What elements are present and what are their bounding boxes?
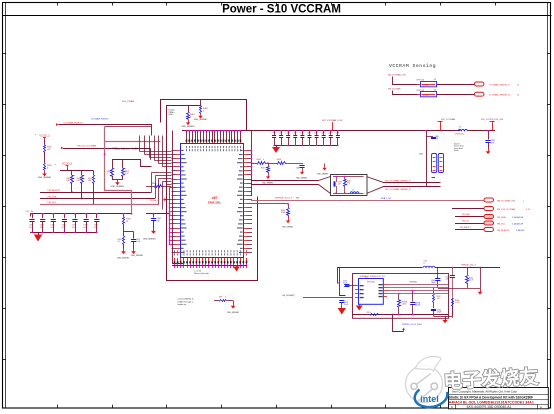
svg-text:GND_SENSE1: GND_SENSE1 bbox=[194, 119, 208, 121]
resistor R567 249 bbox=[433, 288, 441, 308]
ground below R464 bbox=[282, 216, 293, 229]
svg-text:C562: C562 bbox=[431, 280, 435, 282]
ground below R463 bbox=[194, 113, 208, 121]
net flag VDDA_3 at left pin bbox=[150, 199, 172, 203]
staircase wires into U67 left pins upper bbox=[140, 136, 172, 167]
bulk capacitor C485 47uF bbox=[485, 130, 495, 144]
ground below U71 bbox=[356, 305, 363, 311]
resistor R466 sense N bbox=[416, 89, 436, 97]
svg-text:GND_SENSE1: GND_SENSE1 bbox=[143, 239, 156, 241]
series resistor R456 sense bbox=[265, 159, 302, 164]
series resistor R455 sense bbox=[251, 159, 266, 164]
net label SW_VCCRAM_SENSE_N bbox=[385, 188, 411, 191]
svg-text:C473: C473 bbox=[279, 132, 283, 134]
svg-text:L7: L7 bbox=[424, 263, 426, 265]
capacitor C564 470pF bbox=[431, 306, 453, 317]
svg-text:C474: C474 bbox=[286, 132, 290, 134]
svg-text:single via: single via bbox=[178, 304, 188, 306]
watermark elecfans mascot bbox=[406, 357, 443, 403]
svg-text:bal 60x4: bal 60x4 bbox=[423, 85, 429, 87]
svg-text:C489: C489 bbox=[338, 182, 342, 184]
bottom pin bus wire of U67 bbox=[172, 266, 247, 267]
wire RSENSE_VOUT_S long net bbox=[251, 200, 484, 202]
U67 bottom pin stubs bbox=[174, 258, 248, 268]
connector oval PM_ALERT3 bbox=[484, 228, 525, 232]
note connect AGND to DGND bbox=[178, 298, 195, 307]
staircase wires into U67 left pins mid bbox=[152, 173, 172, 212]
resistor R565 60.4K bbox=[438, 276, 480, 289]
ground below address resistors bbox=[111, 180, 125, 188]
wire joining address resistors bbox=[112, 176, 123, 180]
net label CN input left of PWRMGT bbox=[282, 294, 330, 298]
note PMBus Address = 0x58 bbox=[113, 148, 139, 151]
svg-text:C479: C479 bbox=[321, 132, 325, 134]
svg-text:PWRGD_S10_2: PWRGD_S10_2 bbox=[461, 265, 476, 267]
net label SW_VCCRAM sensing bbox=[388, 87, 401, 90]
resistor R464 604K to ground bbox=[281, 209, 290, 216]
svg-text:PM_ALERT3: PM_ALERT3 bbox=[48, 189, 62, 192]
svg-text:connect AGND to: connect AGND to bbox=[178, 298, 195, 301]
svg-text:0.1uF: 0.1uF bbox=[343, 283, 347, 285]
ground below R462 bbox=[181, 120, 195, 128]
net label VCCRAM_PWRGD blue bbox=[91, 117, 109, 120]
svg-text:SW_VCCRAM_LOW: SW_VCCRAM_LOW bbox=[322, 119, 343, 122]
ground of compensation network bbox=[442, 316, 447, 323]
svg-text:PM_SCL: PM_SCL bbox=[497, 223, 506, 225]
resistor R452 0 bbox=[44, 164, 53, 171]
svg-text:Stratix 10 GX FPGA & Developme: Stratix 10 GX FPGA & Development Kit wit… bbox=[449, 396, 533, 400]
sense pair wires from filter to labels bbox=[367, 177, 441, 194]
U71 left pins bbox=[355, 285, 364, 298]
svg-text:L9: L9 bbox=[459, 127, 461, 129]
svg-text:A: A bbox=[540, 405, 542, 409]
svg-text:0: 0 bbox=[107, 173, 108, 175]
resistor R507 pull-up ALERT bbox=[88, 176, 95, 184]
svg-text:VCCRAM Sensing: VCCRAM Sensing bbox=[389, 63, 436, 69]
svg-text:GND_SENSE1: GND_SENSE1 bbox=[296, 178, 307, 180]
wire PM_ALERT3 bbox=[40, 192, 151, 194]
svg-text:C564: C564 bbox=[437, 310, 441, 312]
resistor R457 sense P bbox=[416, 79, 436, 87]
svg-text:GND_SENSE1: GND_SENSE1 bbox=[38, 177, 52, 179]
magenta wire from U67 VS pin bbox=[251, 203, 289, 208]
U71 output wires bbox=[387, 281, 448, 293]
svg-text:6XX-44407R-15D-0S0040-A1: 6XX-44407R-15D-0S0040-A1 bbox=[467, 405, 512, 409]
wire outer loop around U67 bbox=[161, 100, 258, 281]
resistor R451 10K bbox=[44, 145, 53, 153]
wire VCC rail of cap bank bbox=[26, 211, 132, 217]
svg-text:PM_SDA: PM_SDA bbox=[497, 216, 506, 219]
svg-text:1uF: 1uF bbox=[338, 184, 341, 186]
svg-text:R461: R461 bbox=[261, 168, 265, 170]
capacitor C563 on PWRGD bbox=[446, 276, 456, 319]
resistor R458 on sense divider bbox=[123, 213, 131, 224]
capacitor C557 at U71 VDD bbox=[343, 281, 355, 287]
PWRMGT box outline bbox=[353, 274, 449, 319]
wire top feed of PWRGD network bbox=[338, 268, 423, 284]
svg-text:470nH_1A: 470nH_1A bbox=[455, 133, 464, 136]
svg-text:VCCRAM_SENSE_N: VCCRAM_SENSE_N bbox=[489, 94, 510, 97]
svg-text:Place on this side: Place on this side bbox=[194, 272, 209, 275]
inductor L8 in filter box bbox=[350, 190, 359, 194]
svg-text:C558: C558 bbox=[344, 302, 348, 304]
ground rail of cap bank bbox=[30, 232, 98, 235]
wire sense P row bbox=[393, 77, 475, 85]
svg-text:PM_SDA: PM_SDA bbox=[48, 195, 58, 198]
svg-text:180pF: 180pF bbox=[431, 282, 436, 284]
svg-text:DNI: DNI bbox=[77, 180, 81, 182]
svg-text:SW_VCCRAM_SENSE_N: SW_VCCRAM_SENSE_N bbox=[385, 188, 411, 191]
net flag SW_VCCRAM on rail bbox=[438, 118, 456, 131]
resistor R879 4.7K bbox=[122, 169, 130, 177]
resistor R880 0 bbox=[107, 169, 114, 177]
svg-text:VCCRAM_PWRGD: VCCRAM_PWRGD bbox=[91, 117, 109, 120]
svg-text:SW_VCCRAM: SW_VCCRAM bbox=[441, 118, 455, 121]
svg-text:GND_SENSE1: GND_SENSE1 bbox=[117, 258, 129, 260]
mauve wire from left area to chip bbox=[104, 142, 161, 214]
watermark intel logo bbox=[415, 390, 448, 408]
svg-text:SW_VCCFN_DIS_SW: SW_VCCFN_DIS_SW bbox=[481, 119, 504, 121]
svg-text:PM_S10_VCCRAM: PM_S10_VCCRAM bbox=[77, 145, 96, 148]
connector oval VCCRAM_SENSE_P bbox=[474, 82, 520, 86]
U71 right pins bbox=[379, 284, 388, 297]
wire PWR3X net down bbox=[393, 315, 405, 332]
ground of PWRGD divider bbox=[478, 288, 483, 295]
power flag VCCIO_3 mid-left bbox=[55, 162, 73, 168]
svg-text:VCCIO_3: VCCIO_3 bbox=[62, 162, 73, 165]
resistor R460 on DVDD pin wire bbox=[146, 183, 172, 188]
svg-text:L8: L8 bbox=[352, 190, 354, 192]
svg-text:C480: C480 bbox=[328, 132, 332, 134]
wire to decoupling cap C447 bbox=[146, 213, 170, 218]
U67 top pin stubs bbox=[186, 130, 242, 144]
power flag VCCIO_3 upper-left bbox=[35, 133, 50, 140]
svg-text:GND_SENSE1: GND_SENSE1 bbox=[317, 174, 328, 176]
ground below R452 bbox=[38, 171, 52, 179]
ground at U71 left bbox=[338, 301, 349, 315]
svg-text:U67: U67 bbox=[212, 196, 218, 200]
svg-text:Kelvin: Kelvin bbox=[454, 150, 459, 152]
svg-text:SW_VCCRAM_SENSE_P: SW_VCCRAM_SENSE_P bbox=[385, 179, 411, 182]
svg-text:GND_SENSE1: GND_SENSE1 bbox=[181, 126, 195, 128]
svg-text:1W: 1W bbox=[434, 79, 437, 81]
svg-text:SW_VCCRAM_LOW: SW_VCCRAM_LOW bbox=[388, 74, 406, 77]
svg-text:A4FA14 BL GDL LGMBD3E23191N7CC: A4FA14 BL GDL LGMBD3E23191N7CCODE1 34A1 bbox=[449, 401, 534, 405]
ground at U67 bottom bus bbox=[233, 267, 240, 272]
resistor R97x on bottom rail bbox=[367, 312, 379, 315]
sense pair wires from U67 to filter box bbox=[251, 177, 331, 194]
svg-text:Power - S10 VCCRAM: Power - S10 VCCRAM bbox=[222, 3, 341, 15]
resistor R463 pull-down above U67 bbox=[200, 99, 209, 114]
svg-text:VCCRAM_PWRGD: VCCRAM_PWRGD bbox=[64, 121, 84, 124]
note text under U67 bbox=[194, 271, 209, 276]
ground arrow of cap row bbox=[272, 147, 280, 153]
wire vertical bus at left of U67 bbox=[173, 131, 184, 264]
connector oval VCCRAM_SENSE_N bbox=[474, 92, 520, 96]
svg-text:OA_DRGA(R): OA_DRGA(R) bbox=[282, 294, 295, 297]
connector oval PM_S10_VCCRAM bbox=[484, 207, 531, 211]
resistor R461 to ground mid bbox=[261, 162, 273, 184]
U67 top pin name band bbox=[186, 140, 242, 142]
svg-text:1000pF: 1000pF bbox=[415, 305, 420, 307]
svg-text:CN3: CN3 bbox=[419, 154, 423, 156]
svg-text:U24_PWRM: U24_PWRM bbox=[122, 101, 134, 103]
wire PM_ALERT3 to oval bbox=[455, 226, 484, 229]
wire feeds from left at y=126.5 bbox=[105, 127, 152, 142]
svg-text:47uF: 47uF bbox=[83, 227, 87, 229]
ground below R459 bbox=[117, 244, 129, 260]
resistor R568 51.1K bbox=[452, 299, 461, 307]
resistor R96 AGND tie bbox=[214, 296, 234, 303]
section title VCCRAM Sensing bbox=[389, 63, 436, 69]
capacitor C499A bbox=[410, 290, 421, 315]
svg-text:0: 0 bbox=[225, 296, 226, 298]
wire PM_SCL to oval bbox=[455, 221, 484, 224]
svg-text:EM2130L: EM2130L bbox=[208, 201, 221, 205]
svg-text:PWRMGT_PWRGOOD_PG: PWRMGT_PWRGOOD_PG bbox=[360, 276, 385, 278]
svg-text:PWR3X_VCC4_P0K2: PWR3X_VCC4_P0K2 bbox=[402, 324, 422, 326]
wire between R451 and R452 bbox=[44, 152, 46, 163]
connector oval row PM_VCCRAM_SW bbox=[484, 198, 524, 202]
svg-text:47uF: 47uF bbox=[29, 227, 33, 229]
magenta VOUT rail at U67 left bbox=[169, 203, 172, 245]
net label RSENSE_VOUT_S bbox=[275, 198, 299, 200]
net label PWRGD_S10_VREG bbox=[461, 265, 476, 268]
inductor L9 bbox=[455, 127, 495, 136]
sense test header CN3 bbox=[419, 154, 444, 173]
svg-text:intel: intel bbox=[420, 394, 439, 404]
ground below C482 bbox=[296, 167, 307, 180]
svg-text:BRV6363: BRV6363 bbox=[367, 282, 375, 284]
svg-text:x: x bbox=[523, 200, 524, 202]
inductor L7 PWRGD bbox=[423, 261, 435, 268]
svg-text:249: 249 bbox=[437, 298, 440, 300]
ground rail of cap row bbox=[273, 145, 338, 147]
svg-text:PM_SCL: PM_SCL bbox=[48, 202, 58, 204]
svg-text:47uF: 47uF bbox=[72, 227, 76, 229]
ground arrow of cap bank bbox=[34, 235, 42, 242]
U24_PWRM label bbox=[122, 101, 134, 103]
svg-text:R456: R456 bbox=[277, 159, 282, 161]
wire PWRGD distribution bbox=[435, 267, 500, 288]
resistor R508 pull-up SDA bbox=[77, 176, 84, 184]
wire PM_S10_VCCRAM to oval bbox=[452, 208, 484, 210]
svg-text:VCC_IN: VCC_IN bbox=[26, 211, 34, 213]
wire PM_SDA bbox=[40, 198, 155, 200]
svg-text:R96: R96 bbox=[219, 296, 222, 298]
svg-text:VCCIO_3: VCCIO_3 bbox=[39, 134, 50, 137]
svg-text:GND_SENSE1: GND_SENSE1 bbox=[282, 227, 293, 229]
svg-text:47uF: 47uF bbox=[51, 227, 55, 229]
svg-text:C499A: C499A bbox=[415, 302, 421, 305]
svg-text:R97x: R97x bbox=[367, 312, 371, 314]
svg-text:C6x7: C6x7 bbox=[424, 261, 428, 263]
decoupling caps row C472-C481 bbox=[271, 130, 340, 145]
svg-text:D: D bbox=[451, 405, 453, 409]
svg-text:0: 0 bbox=[263, 159, 264, 161]
svg-text:C557: C557 bbox=[343, 281, 347, 283]
svg-text:PMBus Address = 0x58: PMBus Address = 0x58 bbox=[113, 148, 139, 151]
svg-text:C477: C477 bbox=[307, 132, 311, 134]
wire VCCRAM_PWRGD bbox=[56, 123, 152, 135]
top cap rail right of U67 bbox=[251, 131, 460, 197]
svg-text:GND_SENSE1: GND_SENSE1 bbox=[227, 312, 239, 314]
net label SW_VCCRAM_SENSE_P bbox=[385, 179, 411, 182]
svg-text:C472: C472 bbox=[271, 132, 275, 134]
svg-text:DGND through a: DGND through a bbox=[178, 300, 194, 303]
svg-text:PM_SDA: PM_SDA bbox=[462, 213, 470, 216]
svg-text:VCCRAM_SENSE_P: VCCRAM_SENSE_P bbox=[489, 83, 510, 86]
net flag SW_VCCFN_DIS_SW bbox=[481, 119, 504, 131]
svg-text:1uF: 1uF bbox=[446, 279, 449, 281]
svg-text:22uF: 22uF bbox=[435, 138, 439, 140]
wire PM_S10_VCCRAM bbox=[61, 147, 151, 160]
IC U67 EM2130L body bbox=[181, 144, 244, 258]
svg-text:PM_VCCRAM_SW: PM_VCCRAM_SW bbox=[497, 199, 515, 202]
wire PM_SDA to oval bbox=[455, 213, 484, 216]
U67 bottom inner pin numbers bbox=[174, 250, 247, 255]
capacitor C489 in filter box bbox=[334, 181, 342, 193]
svg-text:R455: R455 bbox=[257, 159, 262, 161]
svg-text:0x58: 0x58 bbox=[169, 114, 173, 116]
addressing resistor network box bbox=[113, 160, 152, 169]
svg-text:470pF: 470pF bbox=[437, 312, 442, 314]
wire PWRMGT box bottom rail bbox=[352, 314, 448, 316]
net label VCCRAM_PWRGD red bbox=[64, 121, 84, 124]
net label PM_SDA bbox=[48, 195, 58, 198]
capacitor C447 bbox=[151, 218, 161, 222]
cap bank capacitors C463-C470 bbox=[29, 213, 99, 232]
net label PWR3X_VCC4_P0K2 bbox=[402, 324, 422, 326]
ground at AGND tie bbox=[227, 303, 239, 314]
wire rail from VCCIO_3 to pullup resistors bbox=[60, 168, 94, 175]
svg-text:RSENSE_VOUT_S: RSENSE_VOUT_S bbox=[275, 198, 293, 200]
svg-text:PM_S10_VCCRAM: PM_S10_VCCRAM bbox=[497, 208, 515, 211]
ground below C471 bbox=[131, 241, 143, 257]
watermark chinese characters bbox=[443, 365, 539, 393]
svg-text:C482: C482 bbox=[296, 168, 300, 170]
wire from VCCIO_3 flag bbox=[44, 140, 46, 145]
note Place close to header bbox=[454, 144, 464, 153]
U67 right pins bbox=[237, 150, 252, 253]
svg-text:R465: R465 bbox=[347, 181, 351, 183]
resistor R497A 100K bbox=[398, 293, 409, 315]
svg-text:VDDA_3: VDDA_3 bbox=[150, 199, 159, 202]
wire sense divider mid node bbox=[124, 213, 134, 237]
wire branch to sense header bbox=[425, 130, 435, 186]
resistor R509 pull-up SCL bbox=[67, 176, 74, 184]
capacitor C562 filter bbox=[431, 279, 440, 289]
connector oval PM_SCL bbox=[484, 221, 524, 225]
svg-text:SW_VCCRAM: SW_VCCRAM bbox=[388, 87, 401, 90]
svg-text:SDA_1_NC: SDA_1_NC bbox=[381, 197, 392, 200]
svg-text:C475: C475 bbox=[293, 132, 297, 134]
resistor R465 in filter box bbox=[344, 180, 351, 194]
ground at filter input bbox=[317, 164, 328, 176]
svg-text:bal 60x4: bal 60x4 bbox=[423, 95, 429, 97]
svg-text:PM_SCL: PM_SCL bbox=[462, 221, 469, 223]
net label PM_ALERT3 bbox=[48, 189, 62, 192]
svg-text:C481: C481 bbox=[335, 132, 339, 134]
svg-text:0.1uF: 0.1uF bbox=[344, 304, 348, 306]
note box Default PWM setting bbox=[169, 109, 176, 117]
svg-text:47uF: 47uF bbox=[62, 227, 66, 229]
svg-text:PwrPGds: PwrPGds bbox=[409, 281, 417, 283]
U67 left pins bbox=[172, 150, 187, 253]
title block text bbox=[449, 390, 542, 410]
wire PM_SCL bbox=[40, 204, 159, 206]
wire U71 supply bbox=[330, 268, 352, 298]
svg-text:3.1A,3A,8.4F: 3.1A,3A,8.4F bbox=[512, 216, 524, 219]
ground below C447 bbox=[143, 220, 156, 240]
svg-text:47uF: 47uF bbox=[94, 227, 98, 229]
capacitor C471 lower divider bbox=[131, 237, 141, 244]
net label SW_VCCRAM_LOW sensing bbox=[388, 74, 406, 77]
svg-text:47uF: 47uF bbox=[40, 227, 44, 229]
sheet title Power - S10 VCCRAM bbox=[222, 3, 341, 15]
sense filter box bbox=[331, 175, 368, 196]
svg-text:3.1A,8.4F: 3.1A,8.4F bbox=[516, 229, 525, 232]
wire sense N row bbox=[393, 91, 475, 95]
top pin bus wire of U67 bbox=[182, 130, 251, 132]
resistor R462 pull-down above U67 bbox=[187, 105, 196, 120]
capacitor C486 22uF bbox=[426, 136, 439, 140]
svg-text:3.1A,3A,8.4F: 3.1A,3A,8.4F bbox=[512, 222, 524, 225]
svg-text:PM_ALERT3: PM_ALERT3 bbox=[497, 229, 510, 232]
resistor R459 lower divider bbox=[118, 237, 125, 245]
svg-text:DNI: DNI bbox=[67, 180, 71, 182]
svg-text:PM_ALERT3: PM_ALERT3 bbox=[460, 226, 470, 229]
net stub SW_VCCRAM_LOW on rail bbox=[322, 119, 343, 131]
title block box bbox=[448, 388, 548, 409]
net label SDA_x_NC bbox=[381, 197, 392, 200]
ground below C485 bbox=[486, 142, 491, 154]
net label PM_S10_VCCRAM bbox=[77, 145, 96, 148]
svg-text:C478: C478 bbox=[314, 132, 318, 134]
svg-text:GND_SENSE1: GND_SENSE1 bbox=[131, 255, 143, 257]
capacitor C482 at sense node bbox=[296, 163, 305, 170]
net label PM_SCL bbox=[48, 202, 58, 204]
IC U71 supervisor body bbox=[359, 277, 384, 304]
svg-text:C476: C476 bbox=[300, 132, 304, 134]
svg-text:R460: R460 bbox=[152, 183, 156, 185]
svg-text:GND_SENSE1: GND_SENSE1 bbox=[111, 186, 125, 188]
svg-text:DNI: DNI bbox=[88, 180, 92, 182]
U67 top inner pin numbers bbox=[186, 146, 241, 151]
wires pull-ups down to PMBus lines bbox=[71, 183, 94, 205]
connector oval PM_SDA bbox=[484, 215, 524, 219]
